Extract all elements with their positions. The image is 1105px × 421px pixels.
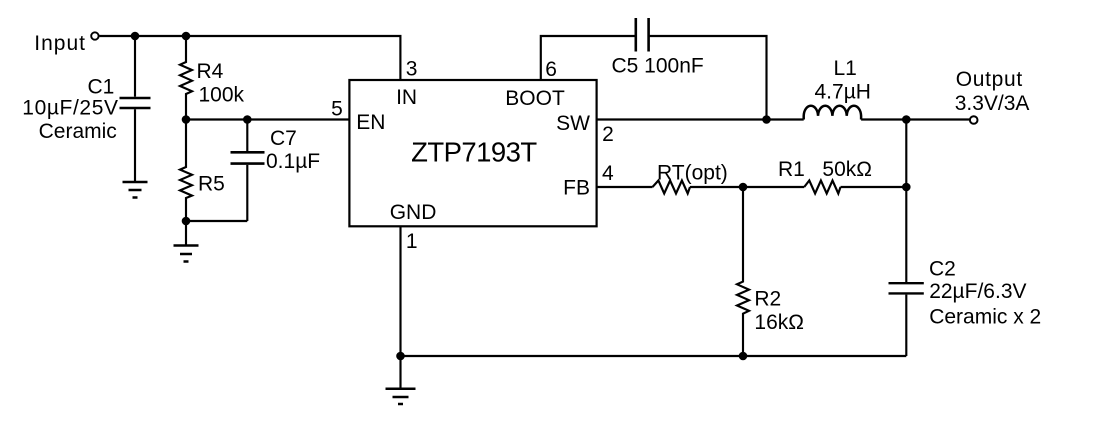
wire: C5 right to SW node (649, 36, 767, 120)
wire: input top rail to pin 3 (100, 36, 401, 80)
label R2 value (754, 288, 804, 334)
node: R1/C2 junction (902, 183, 911, 192)
svg-text:1: 1 (406, 230, 418, 253)
svg-text:C5 100nF: C5 100nF (612, 55, 704, 78)
wire: R5/C7 bottom link (186, 220, 247, 222)
wire: pin 6 BOOT riser (541, 36, 636, 80)
node: R2 bottom junction (739, 352, 748, 361)
node: R4 tap junction (182, 32, 191, 41)
svg-text:R4: R4 (197, 60, 224, 83)
ground (C1) (123, 182, 148, 198)
svg-text:2: 2 (602, 123, 614, 146)
input terminal circle (91, 32, 98, 39)
svg-text:R5: R5 (198, 173, 225, 196)
wire: rail to main ground (399, 356, 401, 389)
svg-text:EN: EN (356, 111, 385, 134)
ground (R5) (174, 246, 199, 262)
svg-text:100k: 100k (199, 83, 245, 106)
wire: RT to R1 (690, 186, 804, 188)
svg-text:3: 3 (406, 58, 418, 81)
svg-text:FB: FB (563, 177, 590, 200)
svg-text:BOOT: BOOT (505, 87, 565, 110)
svg-text:IN: IN (396, 86, 417, 109)
resistor R4 (180, 36, 192, 120)
svg-text:C1: C1 (87, 76, 114, 99)
svg-text:Ceramic: Ceramic (39, 120, 117, 143)
svg-text:5: 5 (331, 98, 343, 121)
wire: R5 junction to ground (185, 221, 187, 246)
svg-text:RT(opt): RT(opt) (657, 162, 728, 185)
resistor R2 (737, 187, 749, 356)
node: R5 bottom junction (182, 217, 191, 226)
wire: GND pin down (399, 226, 401, 356)
svg-text:16kΩ: 16kΩ (754, 311, 804, 334)
svg-text:L1: L1 (834, 57, 857, 80)
svg-text:0.1µF: 0.1µF (266, 150, 320, 173)
wire: output column down (905, 120, 907, 283)
svg-text:4.7µH: 4.7µH (815, 80, 871, 103)
resistor R1 (804, 181, 840, 194)
node: C7 top junction (243, 115, 252, 124)
capacitor C2 (889, 283, 924, 356)
capacitor C7 (231, 120, 265, 222)
op IC U1 ZTP7193T (349, 80, 596, 226)
svg-text:Input: Input (34, 32, 86, 55)
svg-text:6: 6 (545, 58, 557, 81)
label L1 value (815, 57, 871, 103)
svg-text:ZTP7193T: ZTP7193T (411, 137, 537, 168)
wire: EN net (186, 118, 349, 120)
svg-text:50kΩ: 50kΩ (822, 158, 872, 181)
node: R4/R5 junction (182, 115, 191, 124)
svg-text:3.3V/3A: 3.3V/3A (955, 92, 1030, 115)
inductor L1 (804, 106, 861, 120)
label C2 value (929, 258, 1041, 329)
wire: bottom ground rail (401, 355, 907, 357)
resistor RT(opt) (653, 181, 691, 194)
node: R2 top junction (739, 183, 748, 192)
node: output junction (902, 115, 911, 124)
wire: SW net with inductor leads (597, 118, 804, 120)
svg-text:GND: GND (390, 201, 437, 224)
ground (main) (386, 389, 416, 404)
capacitor C1 (120, 36, 151, 182)
label C7 value (266, 127, 320, 173)
node: boot-cap/SW junction (762, 115, 771, 124)
svg-text:22µF/6.3V: 22µF/6.3V (929, 280, 1026, 303)
output terminal circle (970, 116, 978, 124)
label R1 value (778, 158, 872, 181)
label R4 value (197, 60, 245, 106)
label Output (955, 68, 1030, 115)
svg-text:C2: C2 (929, 258, 956, 281)
svg-text:4: 4 (602, 162, 614, 185)
svg-text:Ceramic x 2: Ceramic x 2 (929, 306, 1041, 329)
svg-text:10µF/25V: 10µF/25V (22, 97, 118, 120)
label C1 value (22, 76, 118, 143)
resistor R5 (180, 120, 192, 222)
svg-text:R1: R1 (778, 158, 805, 181)
svg-text:R2: R2 (754, 288, 781, 311)
svg-text:C7: C7 (270, 127, 297, 150)
wire: R1 to output column (841, 186, 907, 188)
node: GND rail junction (396, 352, 405, 361)
wire: FB net (597, 186, 653, 188)
svg-text:Output: Output (956, 68, 1023, 91)
svg-text:SW: SW (556, 112, 590, 135)
capacitor C5 (636, 18, 649, 52)
wire: L1 to output (861, 118, 969, 120)
node: C1 tap junction (131, 32, 140, 41)
